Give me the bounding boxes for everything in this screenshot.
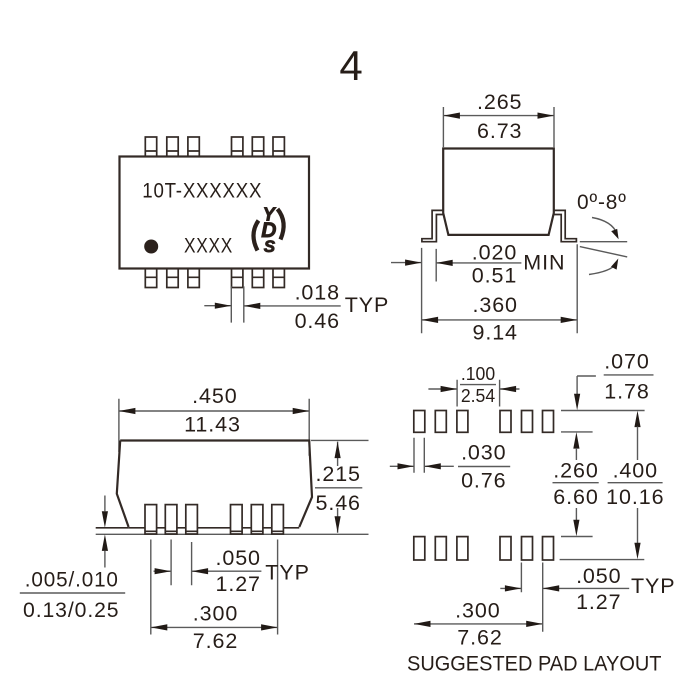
svg-text:11.43: 11.43 — [184, 413, 241, 437]
svg-text:7.62: 7.62 — [193, 629, 238, 653]
svg-text:XXXX: XXXX — [184, 234, 233, 258]
svg-text:.050: .050 — [215, 546, 260, 570]
svg-text:.005/.010: .005/.010 — [25, 567, 119, 591]
svg-text:TYP: TYP — [265, 560, 310, 584]
svg-text:.070: .070 — [604, 349, 649, 373]
svg-text:1.27: 1.27 — [215, 572, 260, 596]
svg-text:4: 4 — [339, 42, 362, 89]
svg-text:10.16: 10.16 — [606, 485, 664, 509]
svg-text:6.60: 6.60 — [553, 485, 598, 509]
svg-text:.360: .360 — [472, 293, 517, 317]
svg-text:1.78: 1.78 — [604, 380, 649, 404]
svg-text:2.54: 2.54 — [461, 386, 495, 406]
svg-text:.450: .450 — [192, 384, 237, 408]
svg-text:.020: .020 — [472, 241, 517, 265]
svg-text:.215: .215 — [315, 462, 360, 486]
svg-text:.300: .300 — [193, 602, 238, 626]
svg-text:.300: .300 — [455, 599, 500, 623]
svg-text:.100: .100 — [461, 364, 495, 384]
svg-text:7.62: 7.62 — [457, 626, 502, 650]
svg-text:5.46: 5.46 — [315, 491, 360, 515]
svg-text:0.13/0.25: 0.13/0.25 — [23, 598, 120, 622]
svg-text:TYP: TYP — [631, 574, 676, 598]
svg-text:6.73: 6.73 — [477, 119, 522, 143]
svg-text:.400: .400 — [613, 459, 658, 483]
svg-text:.265: .265 — [477, 90, 522, 114]
svg-text:.018: .018 — [295, 280, 340, 304]
svg-text:SUGGESTED PAD LAYOUT: SUGGESTED PAD LAYOUT — [407, 653, 662, 676]
svg-text:0.51: 0.51 — [472, 263, 517, 287]
svg-text:.260: .260 — [553, 459, 598, 483]
svg-text:0.46: 0.46 — [295, 309, 340, 333]
svg-text:9.14: 9.14 — [472, 321, 517, 345]
svg-text:MIN: MIN — [523, 251, 565, 275]
svg-text:1.27: 1.27 — [576, 590, 621, 614]
svg-text:10T-XXXXXX: 10T-XXXXXX — [142, 178, 262, 202]
svg-text:0º-8º: 0º-8º — [577, 190, 627, 214]
svg-text:S: S — [264, 237, 276, 256]
svg-text:.030: .030 — [461, 441, 506, 465]
svg-text:TYP: TYP — [345, 293, 390, 317]
svg-text:.050: .050 — [576, 564, 621, 588]
svg-text:0.76: 0.76 — [461, 469, 506, 493]
